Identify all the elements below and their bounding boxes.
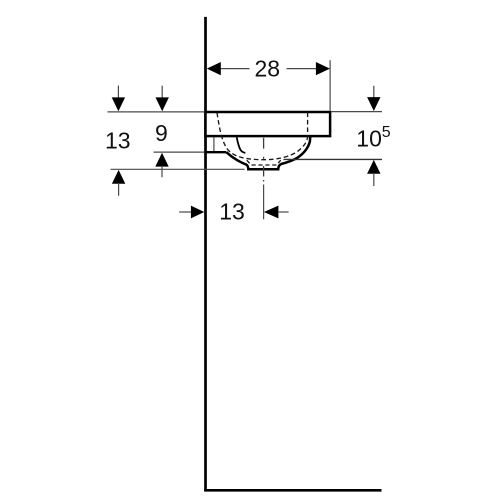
basin back visible inner corner curve <box>237 137 246 153</box>
basin back step inner edge <box>213 137 215 151</box>
dimension 13 bottom: left arrow (points right at wall) <box>179 211 192 213</box>
right bottom extension line (inner bowl bottom level) <box>284 158 383 160</box>
dimension 9: top arrow (down) <box>161 86 163 99</box>
inner bowl hidden edge through rim (dashed) <box>307 112 309 136</box>
outer bowl and drain outline <box>226 137 310 170</box>
dimension 13 bottom: extension line (drain centerline) <box>263 185 265 220</box>
dimension 10.5: top arrow (down) <box>373 86 375 99</box>
dimension 9: bottom arrow (up) <box>155 153 168 167</box>
dimension 28: right arrowhead <box>316 62 330 75</box>
dimension 28: dimension line segments <box>220 68 250 70</box>
vertical centerline (dash-dot) <box>263 138 265 182</box>
svg-text:13: 13 <box>105 128 131 154</box>
svg-text:5: 5 <box>382 124 391 141</box>
svg-text:9: 9 <box>155 120 168 146</box>
inner bowl hidden outline (dashed) <box>217 113 308 160</box>
dimension 13 left: top arrow (down) <box>117 86 119 99</box>
svg-text:28: 28 <box>255 56 281 82</box>
basin back step bottom edge <box>204 151 226 153</box>
dimension 13 left: bottom arrow (up) <box>112 170 125 184</box>
left top extension line (rim top level) <box>108 111 205 113</box>
dimension 28: left arrowhead <box>207 62 221 75</box>
svg-text:13: 13 <box>219 199 245 225</box>
dimension 13 bottom: right arrow (points left at centerline) <box>264 206 279 219</box>
right top extension line (rim top level) <box>331 111 382 113</box>
left middle extension line (9: basin bottom at wall) <box>154 151 205 153</box>
drain inner hidden outline (dashed) <box>247 160 281 165</box>
wall line <box>204 17 207 492</box>
floor line <box>204 489 381 492</box>
dimension 28: extension line right <box>329 60 331 110</box>
left bottom extension line (13: drain bottom level) <box>111 168 245 170</box>
washbasin rim (side profile) <box>206 112 331 136</box>
dimension 10.5: bottom arrow (up) <box>367 160 380 174</box>
svg-text:10: 10 <box>356 126 382 152</box>
